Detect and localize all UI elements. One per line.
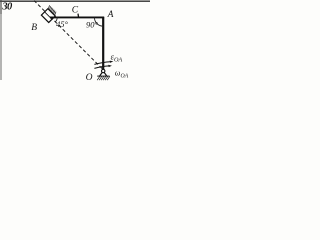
rod AO (vertical)	[102, 17, 104, 70]
dashed guide line through B and O	[34, 1, 103, 70]
svg-text:O: O	[86, 73, 93, 83]
svg-text:90°: 90°	[86, 20, 99, 30]
rod BA (horizontal)	[50, 16, 104, 18]
point C tick	[77, 14, 80, 17]
support hatching	[97, 76, 110, 80]
background	[0, 0, 150, 90]
guide axis inside slider	[44, 12, 52, 20]
svg-text:C: C	[72, 6, 79, 16]
svg-text:B: B	[31, 23, 37, 33]
support ground line	[97, 75, 109, 77]
45 degree angle arc at B	[55, 17, 57, 21]
support triangle	[100, 72, 107, 76]
epsilon arc arrow	[94, 62, 110, 65]
top frame border	[0, 0, 150, 2]
svg-text:A: A	[107, 10, 114, 20]
90 degree angle arc at A	[94, 17, 103, 26]
omega arc arrow	[94, 66, 109, 69]
svg-text:30: 30	[1, 2, 13, 13]
left frame border	[0, 0, 2, 14]
hatching on slider guide	[48, 5, 56, 15]
svg-text:45°: 45°	[56, 19, 69, 29]
pivot pin at O	[102, 69, 105, 72]
slider block B	[41, 9, 55, 23]
